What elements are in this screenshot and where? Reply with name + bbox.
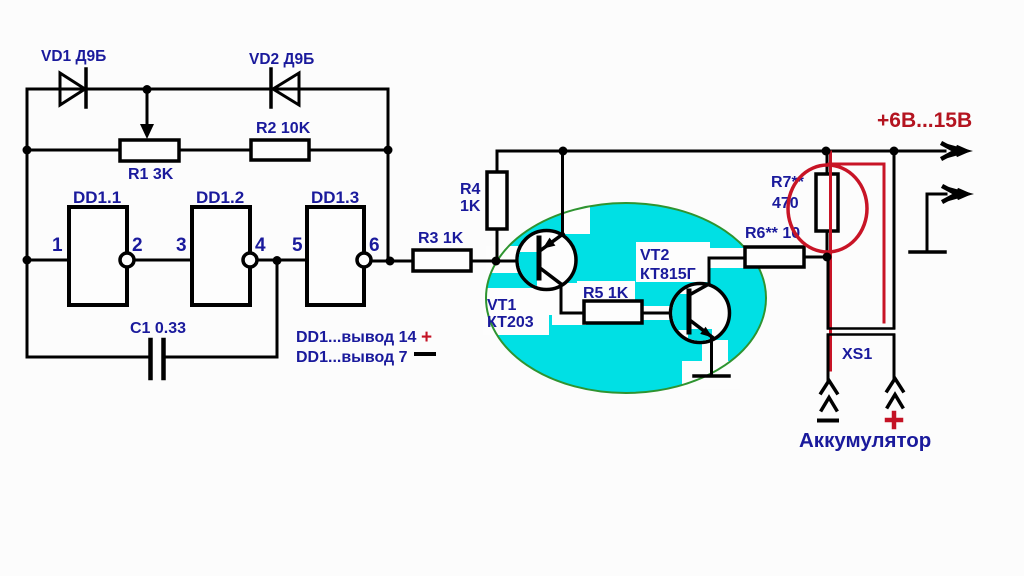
potentiometer R1 (120, 140, 179, 161)
label R2 (256, 120, 311, 137)
junction: R2 / right rail (384, 146, 393, 155)
note DD1 pin14 (296, 329, 417, 346)
svg-text:VT2: VT2 (640, 247, 669, 264)
wire: R5 to VT2 base (642, 312, 687, 315)
minus mark (pin7) (416, 352, 434, 356)
svg-text:1: 1 (52, 235, 63, 256)
svg-text:КТ815Г: КТ815Г (640, 266, 696, 283)
inverter DD1.2 (192, 207, 257, 305)
wire: R6 to node (804, 256, 827, 259)
svg-text:C1 0.33: C1 0.33 (130, 320, 186, 337)
svg-text:R5 1K: R5 1K (583, 285, 629, 302)
wire: XS1 left lead (827, 257, 830, 381)
wire: VT1 collector to R5 (561, 284, 584, 313)
resistor R6 (745, 247, 804, 267)
junction: rail / XS1 plus lead (890, 147, 899, 156)
pin 6 (369, 235, 380, 256)
svg-text:1K: 1K (460, 198, 481, 215)
wire: top bus from left rail to right rail (27, 88, 388, 91)
wire: second horizontal (R1/R2 row) (27, 149, 388, 152)
wire: XS1 right lead (893, 151, 896, 379)
svg-text:Аккумулятор: Аккумулятор (799, 429, 931, 452)
resistor R7 (816, 151, 838, 257)
junction: R6 / R7 bottom node (823, 253, 832, 262)
label R4 (460, 181, 481, 215)
label R3 (418, 230, 464, 247)
junction: rail / VT1 emitter (559, 147, 568, 156)
svg-text:5: 5 (292, 235, 303, 256)
inverter DD1.1 (69, 207, 134, 305)
transistor VT1 (PNP) (515, 231, 576, 293)
junction: rail / R7 top (822, 147, 831, 156)
svg-text:VT1: VT1 (487, 297, 516, 314)
transistor VT2 (NPN) (669, 284, 730, 343)
wire: bottom feedback wire through C1 (27, 356, 277, 359)
wire: VT2 collector to R6 (709, 258, 745, 285)
wire: pin4 to pin5 (257, 259, 307, 262)
label C1 (130, 320, 186, 337)
plug contact minus (821, 381, 837, 411)
red battery wire (plus path) (829, 164, 884, 322)
resistor R4 (487, 151, 507, 261)
pin 4 (255, 235, 266, 256)
wire: top supply rail (497, 150, 945, 153)
pin 5 (292, 235, 303, 256)
resistor R2 (251, 140, 309, 160)
minus terminal mark (819, 419, 837, 423)
svg-text:3: 3 (176, 235, 187, 256)
plus mark (pin14) (421, 327, 432, 348)
label +6V...15V (877, 109, 972, 132)
svg-text:470: 470 (772, 195, 799, 212)
resistor R5 (584, 301, 642, 323)
svg-text:+6В...15В: +6В...15В (877, 109, 972, 132)
label DD1.3 (311, 188, 359, 207)
wire: VT1 emitter to rail (561, 151, 564, 234)
svg-text:4: 4 (255, 235, 266, 256)
wire: left vertical rail (26, 89, 29, 357)
svg-text:DD1...вывод 14: DD1...вывод 14 (296, 329, 417, 346)
diode VD1 (60, 69, 86, 107)
diode VD2 (271, 69, 299, 107)
junction: R3/R4 node (492, 257, 501, 266)
junction: left rail / second wire (23, 146, 32, 155)
svg-text:DD1...вывод 7: DD1...вывод 7 (296, 349, 408, 366)
ground (VT2 emitter) (694, 374, 729, 378)
pin 2 (132, 235, 143, 256)
svg-text:R1 3K: R1 3K (128, 166, 174, 183)
svg-text:R2 10K: R2 10K (256, 120, 311, 137)
svg-text:R3 1K: R3 1K (418, 230, 464, 247)
label DD1.2 (196, 188, 244, 207)
red battery wire (minus path) (829, 152, 832, 370)
note DD1 pin7 (296, 349, 408, 366)
plug contact plus (887, 379, 903, 408)
svg-text:2: 2 (132, 235, 143, 256)
label R6 (745, 225, 800, 242)
junction: pin4-5 / C1 riser (273, 256, 282, 265)
wire: VT2 emitter down (710, 337, 713, 376)
pin 3 (176, 235, 187, 256)
pin 1 (52, 235, 63, 256)
label VD1 (41, 48, 106, 65)
label VT1 (487, 297, 534, 331)
wire: pin1 input (27, 259, 69, 262)
arrow: supply rail end (943, 144, 973, 159)
label XS1 (842, 346, 872, 363)
junction: left rail / pin1 (23, 256, 32, 265)
junction: wiper tap on top bus (143, 85, 152, 94)
svg-text:+: + (421, 327, 432, 348)
wire: R3 to VT1 base (471, 260, 537, 263)
svg-text:DD1.2: DD1.2 (196, 188, 244, 207)
R1 wiper arrow (140, 90, 154, 139)
svg-text:DD1.3: DD1.3 (311, 188, 359, 207)
wire: right vertical rail (R2 to pin6) (387, 89, 390, 261)
highlight ellipse around VT1/VT2 stage (483, 203, 766, 393)
inverter DD1.3 (307, 207, 371, 305)
svg-text:VD2 Д9Б: VD2 Д9Б (249, 51, 314, 68)
label VT2 (640, 247, 696, 283)
svg-text:VD1 Д9Б: VD1 Д9Б (41, 48, 106, 65)
red circle highlight on R7 (788, 165, 867, 252)
plus terminal mark (887, 413, 901, 427)
resistor R3 (413, 250, 471, 271)
wire: pin2 to pin3 (134, 259, 192, 262)
wire: pin6 output to R3 (371, 260, 413, 263)
common rail symbol with arrow (910, 187, 974, 253)
svg-text:6: 6 (369, 235, 380, 256)
svg-text:DD1.1: DD1.1 (73, 188, 121, 207)
wire: C1 riser to pin4/5 node (276, 260, 279, 357)
junction: pin6 node (386, 257, 395, 266)
svg-text:XS1: XS1 (842, 346, 872, 363)
connector XS1 plates (828, 329, 894, 335)
capacitor C1 (151, 340, 164, 378)
svg-text:КТ203: КТ203 (487, 314, 534, 331)
label R7 (771, 174, 805, 212)
label R5 (583, 285, 629, 302)
label DD1.1 (73, 188, 121, 207)
label battery (799, 429, 931, 452)
svg-text:R4: R4 (460, 181, 481, 198)
label VD2 (249, 51, 314, 68)
label R1 (128, 166, 174, 183)
